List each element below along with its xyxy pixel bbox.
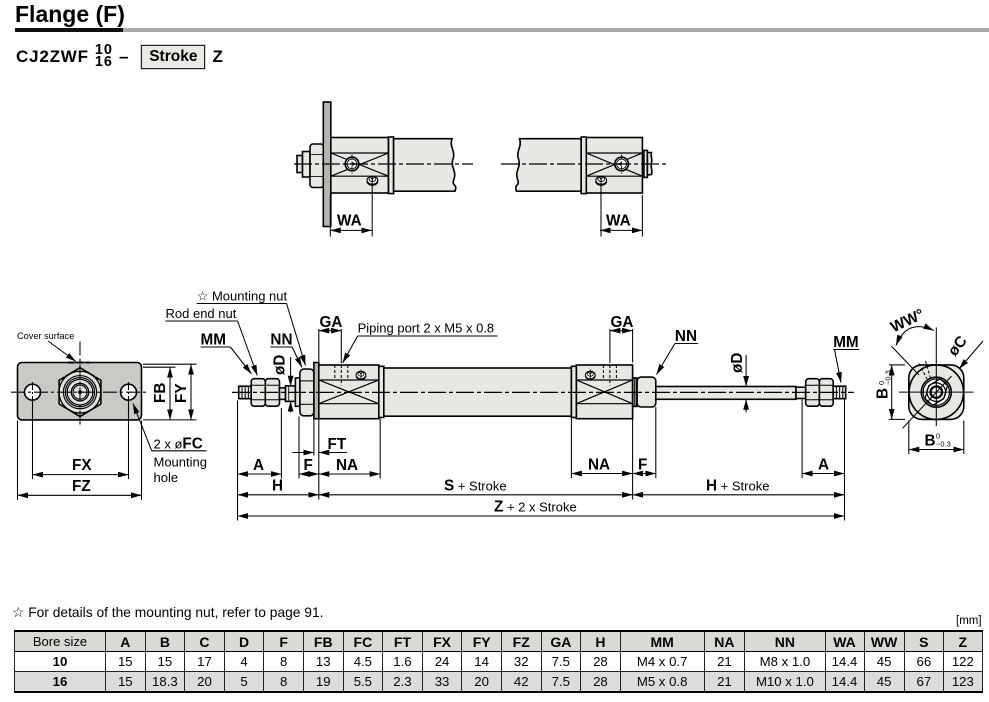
dimension FY xyxy=(143,363,197,365)
collar xyxy=(286,386,296,402)
dimension H left xyxy=(238,494,319,496)
svg-text:NN: NN xyxy=(675,328,697,345)
svg-text:GA: GA xyxy=(611,314,634,331)
dimension A left xyxy=(238,473,282,475)
end view centerlines xyxy=(892,327,974,429)
svg-text:FX: FX xyxy=(72,457,92,474)
rod washer xyxy=(303,152,311,178)
svg-text:FY: FY xyxy=(173,383,190,403)
WA dimension right view xyxy=(600,176,642,236)
rod end nut hexagon xyxy=(925,379,947,406)
label oD left xyxy=(272,355,289,375)
piston rod thread MM right xyxy=(833,386,846,399)
extension lines bottom right xyxy=(570,416,572,478)
dimension NA right xyxy=(571,473,632,475)
label cover surface xyxy=(17,331,74,341)
piping port right (hidden lines) xyxy=(603,365,616,386)
svg-text:NN: NN xyxy=(270,332,292,349)
svg-text:WW°: WW° xyxy=(888,306,927,336)
label 2 x oFC mounting hole xyxy=(133,403,207,450)
head cover block right xyxy=(576,365,632,419)
cap ring xyxy=(581,137,586,194)
centerlines flange view xyxy=(11,342,148,428)
mounting hole right xyxy=(121,384,137,400)
rod end nut pair left xyxy=(251,379,279,407)
WA dimension left view xyxy=(330,176,372,236)
svg-text:øD: øD xyxy=(272,355,289,375)
port circle xyxy=(615,157,629,171)
tube ring left xyxy=(379,366,384,417)
svg-text:☆ Mounting nut: ☆ Mounting nut xyxy=(197,289,288,304)
screw xyxy=(367,176,378,184)
inner rings xyxy=(921,377,951,407)
dimensions table xyxy=(14,630,983,693)
svg-text:Cover surface: Cover surface xyxy=(17,331,74,341)
svg-text:H: H xyxy=(272,478,283,495)
svg-text:MM: MM xyxy=(201,332,227,349)
svg-text:−0.3: −0.3 xyxy=(936,440,951,449)
cover circle oC xyxy=(909,365,963,419)
dimension NA left xyxy=(319,473,380,475)
flange plate edge-on (main view) xyxy=(314,363,319,419)
WW arc xyxy=(896,327,934,346)
tube with break xyxy=(394,139,456,192)
svg-text:øD: øD xyxy=(729,353,746,373)
rod step xyxy=(796,387,806,398)
dimension F right xyxy=(633,473,656,475)
dimension A right xyxy=(802,473,844,475)
svg-text:NA: NA xyxy=(588,457,610,474)
svg-text:hole: hole xyxy=(154,470,179,485)
label mounting nut xyxy=(197,289,288,304)
head cover block xyxy=(586,138,642,194)
svg-text:Rod end nut: Rod end nut xyxy=(166,306,237,321)
screw head left cover xyxy=(356,370,366,381)
dimension B left xyxy=(889,365,905,420)
extension lines bottom left xyxy=(237,401,239,521)
mounting nut hexagon front xyxy=(59,368,101,417)
svg-text:−0.3: −0.3 xyxy=(884,370,893,385)
svg-text:FB: FB xyxy=(152,383,169,403)
mm unit xyxy=(956,615,982,627)
head cover block xyxy=(331,138,389,194)
rod end nut pair right xyxy=(806,379,834,407)
cover outline square xyxy=(909,365,964,420)
title underline gray xyxy=(123,28,989,33)
piping port left (hidden lines) xyxy=(335,365,348,386)
rod short section xyxy=(280,388,286,400)
svg-text:A: A xyxy=(253,457,264,474)
dimension S + Stroke xyxy=(319,494,633,496)
tube with break xyxy=(516,139,581,192)
diagonal line xyxy=(903,376,952,428)
svg-text:F: F xyxy=(638,457,647,474)
hidden hole lines xyxy=(919,364,927,380)
screw xyxy=(596,176,607,184)
svg-text:GA: GA xyxy=(320,314,343,331)
svg-text:H + Stroke: H + Stroke xyxy=(706,478,769,495)
label oC xyxy=(945,333,971,360)
rod stub with break xyxy=(644,150,648,177)
screw head right cover xyxy=(585,370,595,381)
dimension H + Stroke xyxy=(633,494,845,496)
label NN right xyxy=(675,328,697,345)
mounting hole left xyxy=(25,384,41,400)
svg-text:B: B xyxy=(875,388,892,399)
dimension GA left xyxy=(318,329,320,363)
cover surface dashes xyxy=(68,362,90,364)
mounting nut NN right xyxy=(637,377,656,407)
label WW xyxy=(888,306,927,336)
cylinder tube xyxy=(384,368,572,416)
svg-text:NA: NA xyxy=(336,457,358,474)
flange plate edge-on xyxy=(323,102,331,227)
svg-text:FZ: FZ xyxy=(72,478,91,495)
svg-text:F: F xyxy=(304,457,313,474)
svg-text:S + Stroke: S + Stroke xyxy=(444,478,507,495)
centerline main view xyxy=(232,391,854,393)
dimension FT xyxy=(313,419,315,456)
flange plate xyxy=(18,363,142,420)
svg-text:WA: WA xyxy=(337,213,362,230)
title underline black xyxy=(15,28,123,33)
svg-text:MM: MM xyxy=(833,334,859,351)
svg-text:2 x øFC: 2 x øFC xyxy=(154,436,203,453)
cap ring xyxy=(389,137,394,194)
dimension Z + 2 x Stroke xyxy=(238,515,845,517)
port circle xyxy=(345,157,359,171)
piston rod right xyxy=(656,387,796,400)
svg-text:FT: FT xyxy=(328,436,347,453)
dimension FZ xyxy=(18,421,142,501)
dimension GA right xyxy=(609,329,611,363)
centerline top-right view xyxy=(501,163,668,165)
svg-text:B: B xyxy=(925,433,936,450)
svg-text:Z + 2 x Stroke: Z + 2 x Stroke xyxy=(494,499,577,516)
svg-text:A: A xyxy=(818,457,829,474)
svg-text:WA: WA xyxy=(606,213,631,230)
mounting nut NN left xyxy=(300,369,314,416)
centerline top-left view xyxy=(294,163,473,165)
label MM left xyxy=(201,332,227,349)
dimension FB xyxy=(143,366,176,368)
dimension B bottom xyxy=(909,421,964,455)
label oD right xyxy=(729,353,746,373)
note line xyxy=(12,605,323,621)
washer right xyxy=(633,378,637,407)
nut circles xyxy=(59,371,101,413)
model number line xyxy=(16,41,224,73)
rod cover block left xyxy=(319,365,379,419)
piston rod thread MM left xyxy=(239,386,252,399)
title Flange (F) xyxy=(15,1,125,28)
label rod end nut xyxy=(166,306,237,321)
label piping port xyxy=(358,321,495,336)
WW incline line xyxy=(892,346,920,375)
tube ring right xyxy=(571,366,576,417)
label MM right xyxy=(833,334,859,351)
rod thread tip xyxy=(297,156,303,173)
svg-text:øC: øC xyxy=(945,333,971,360)
dimension FX xyxy=(33,401,129,480)
label NN left xyxy=(270,332,292,349)
svg-text:Mounting: Mounting xyxy=(154,455,207,470)
rod end nut xyxy=(310,144,324,188)
svg-text:Piping port 2 x M5 x 0.8: Piping port 2 x M5 x 0.8 xyxy=(358,321,495,336)
dimension F left xyxy=(299,473,319,475)
washer xyxy=(295,378,300,406)
